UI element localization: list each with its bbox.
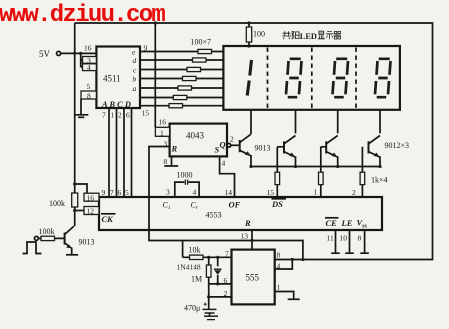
svg-text:16: 16 bbox=[159, 118, 167, 127]
capacitor C1 1000p between 4553 pins 3,4 bbox=[175, 171, 199, 198]
wire: left +5V vertical trunk bbox=[74, 23, 76, 226]
resistor R7 1k (Q4 base to 4553 pin2) bbox=[360, 147, 387, 197]
digit 4 (displays 8) bbox=[375, 59, 391, 97]
pin 10 label and ground stub of 4553 bbox=[340, 230, 354, 253]
svg-text:2: 2 bbox=[118, 111, 122, 120]
wire: segment line a bbox=[140, 87, 223, 89]
svg-text:DS: DS bbox=[271, 199, 283, 209]
svg-text:LED: LED bbox=[300, 32, 317, 41]
resistor R8 100 (display common) bbox=[246, 21, 265, 47]
svg-text:1M: 1M bbox=[191, 275, 202, 284]
IC U2 4043 RS latch bbox=[170, 124, 231, 157]
svg-text:12: 12 bbox=[87, 207, 95, 216]
resistor R g (100) bbox=[169, 104, 183, 108]
wire: 4043 pin3 down and across to 555 (reset net) bbox=[149, 147, 303, 260]
svg-text:Q: Q bbox=[220, 140, 226, 150]
wire: segment line e bbox=[140, 51, 223, 53]
digit 2 (displays 8) bbox=[286, 59, 302, 97]
svg-text:8: 8 bbox=[164, 157, 168, 166]
wire: 555 pin4 tie to pin8 rail bbox=[275, 260, 293, 270]
svg-text:3: 3 bbox=[166, 188, 170, 197]
svg-text:A B C D: A B C D bbox=[101, 99, 131, 109]
svg-text:8: 8 bbox=[358, 234, 362, 243]
IC U3 4553 three-digit BCD counter bbox=[99, 197, 382, 230]
svg-text:7: 7 bbox=[110, 188, 114, 197]
pin labels 7 1 2 6 of 4511 bbox=[102, 111, 130, 120]
resistor R2 100k pull-up bbox=[49, 193, 78, 208]
svg-text:4: 4 bbox=[193, 188, 197, 197]
pin 1 stub box of 4043 bbox=[155, 127, 169, 137]
svg-text:4: 4 bbox=[87, 63, 91, 72]
wire: emitter bus bbox=[251, 166, 380, 168]
resistor R f (100) bbox=[173, 95, 187, 99]
resistor R9 1M timing bbox=[191, 257, 211, 284]
svg-text:16: 16 bbox=[84, 44, 92, 53]
label: common anode LED display (Chinese) bbox=[282, 31, 341, 39]
svg-text:1k×4: 1k×4 bbox=[371, 176, 388, 185]
ground: C2 negative bbox=[204, 313, 218, 320]
wire: Q2 base lead bbox=[277, 146, 284, 148]
wire: BCD bus Q0 (4511 pin7 to 4553 pin9) bbox=[108, 108, 110, 197]
svg-text:100k: 100k bbox=[49, 199, 65, 208]
svg-text:555: 555 bbox=[246, 273, 260, 283]
pin labels 9 7 6 5 of 4553 bbox=[102, 188, 130, 197]
transistor Q4 9012 digit driver bbox=[369, 136, 410, 167]
svg-text:CK: CK bbox=[102, 214, 115, 224]
svg-text:d: d bbox=[133, 56, 137, 65]
svg-text:9012×3: 9012×3 bbox=[385, 141, 410, 150]
svg-text:1000: 1000 bbox=[177, 171, 193, 180]
capacitor C2 470uF electrolytic bbox=[184, 297, 217, 313]
junction dots on emitter bus bbox=[249, 165, 252, 168]
wire: Q3 base lead bbox=[321, 146, 326, 148]
wire: node down to 555 pin2 bbox=[209, 284, 232, 297]
svg-text:4043: 4043 bbox=[186, 131, 205, 141]
resistor R a (100) bbox=[178, 86, 192, 90]
wire: BCD bus Q2 (4511 pin2 to 4553 pin6) bbox=[123, 108, 125, 197]
svg-text:b: b bbox=[133, 75, 137, 84]
wire: tie to 4511 pins 3,4 bbox=[81, 53, 83, 67]
svg-text:R: R bbox=[171, 144, 178, 154]
svg-text:CE: CE bbox=[326, 218, 338, 228]
IC U4 555 timer bbox=[232, 250, 275, 305]
svg-text:10: 10 bbox=[340, 234, 348, 243]
pin 8 label and ground stub of 4553 bbox=[358, 230, 369, 253]
digit 3 (displays 8) bbox=[333, 59, 349, 97]
wire: segment line g bbox=[140, 105, 223, 107]
svg-text:14: 14 bbox=[225, 188, 233, 197]
svg-text:4: 4 bbox=[222, 159, 226, 168]
IC U1 4511 BCD-to-7seg decoder bbox=[96, 47, 140, 110]
transistor Q1 9013 digit driver bbox=[240, 134, 271, 166]
svg-text:R: R bbox=[244, 218, 251, 228]
svg-text:5V: 5V bbox=[39, 49, 51, 59]
wire: 4043 pin4 to 4553 pin14 bbox=[220, 156, 235, 197]
svg-text:10k: 10k bbox=[189, 246, 201, 255]
wire: digit1 common anode vertical bbox=[250, 110, 252, 134]
wire: BCD bus Q3 (4511 pin6 to 4553 pin5) bbox=[131, 108, 133, 197]
resistor R6 1k (Q3 base to 4553 pin1) bbox=[319, 147, 324, 197]
svg-text:1: 1 bbox=[111, 111, 115, 120]
svg-text:13: 13 bbox=[241, 232, 249, 241]
wire: Q2 base vertical upper bbox=[276, 146, 278, 148]
svg-text:100: 100 bbox=[253, 30, 265, 39]
ground: 4511 pin 8 bbox=[74, 99, 88, 117]
pin 11 label and ground stub of 4553 bbox=[327, 230, 340, 253]
ground: 4043 pin 8 bbox=[164, 156, 178, 166]
resistor R d (100) bbox=[193, 58, 207, 62]
svg-text:8: 8 bbox=[87, 91, 91, 100]
svg-text:a: a bbox=[133, 84, 137, 93]
pin 12 stub box of 4553 bbox=[84, 207, 99, 216]
svg-text:4553: 4553 bbox=[206, 211, 222, 220]
svg-text:15: 15 bbox=[267, 188, 275, 197]
svg-text:15: 15 bbox=[142, 109, 150, 118]
wire: segment line d bbox=[140, 59, 223, 61]
svg-text:2: 2 bbox=[230, 135, 234, 144]
svg-text:9: 9 bbox=[102, 188, 106, 197]
svg-text:OF: OF bbox=[229, 200, 241, 210]
resistor R5 1k (Q2 base to 4553 pin15) bbox=[275, 147, 280, 197]
svg-text:100×7: 100×7 bbox=[191, 38, 212, 47]
wire: Q5 collector to 4553 pin12 bbox=[75, 210, 84, 212]
svg-text:1: 1 bbox=[160, 128, 164, 137]
resistor R3 100k clock input series bbox=[39, 227, 55, 241]
svg-text:5: 5 bbox=[125, 188, 129, 197]
resistor R b (100) bbox=[183, 76, 197, 80]
transistor Q5 9013 clock input bbox=[65, 226, 95, 254]
resistor R e (100) bbox=[198, 49, 212, 53]
svg-text:LE: LE bbox=[341, 218, 353, 228]
wire: 555 pin1 to ground bbox=[275, 292, 294, 300]
ground: 555 pin1 bbox=[288, 298, 300, 300]
svg-text:2: 2 bbox=[352, 188, 356, 197]
wire: input terminal to R3 to Q5 base bbox=[38, 237, 64, 239]
wire: 4553 pin13 R to 555 pin3 bbox=[251, 230, 253, 250]
resistor R4 10k timing bbox=[183, 241, 232, 260]
junction dots: RC node on pin7 line bbox=[207, 256, 210, 259]
svg-text:4511: 4511 bbox=[103, 74, 121, 84]
input pulse waveform symbol bbox=[23, 242, 42, 254]
svg-text:5: 5 bbox=[87, 82, 91, 91]
pin 3 stub box of 4511 bbox=[83, 56, 97, 65]
wire: digit3 common vertical bbox=[337, 110, 339, 134]
svg-text:6: 6 bbox=[118, 188, 122, 197]
node: 5V input terminal bbox=[39, 49, 61, 59]
wire: Q1 base from 4043 Q output bbox=[231, 144, 240, 146]
pin 16 stub box of 4553 bbox=[84, 193, 99, 202]
svg-text:470μ: 470μ bbox=[184, 304, 200, 313]
svg-text:www.dziuu.com: www.dziuu.com bbox=[0, 2, 165, 29]
wire: segment line c bbox=[140, 69, 223, 71]
wire: segment line b bbox=[140, 78, 223, 80]
svg-text:9013: 9013 bbox=[255, 144, 271, 153]
wire: lamp-test vertical from rail to 4043 pin1 bbox=[154, 23, 156, 127]
pin 4 stub box of 4511 bbox=[83, 63, 97, 72]
svg-text:9013: 9013 bbox=[79, 238, 95, 247]
svg-text:1: 1 bbox=[277, 283, 281, 292]
svg-text:8: 8 bbox=[277, 251, 281, 260]
svg-text:6: 6 bbox=[126, 111, 130, 120]
svg-text:100k: 100k bbox=[39, 227, 55, 236]
wire: digit2 common vertical bbox=[295, 110, 297, 134]
svg-text:11: 11 bbox=[327, 234, 334, 243]
wire: +5V top rail bbox=[75, 23, 433, 260]
node: clock input terminal bbox=[34, 236, 38, 240]
svg-text:16: 16 bbox=[87, 193, 95, 202]
svg-text:7: 7 bbox=[102, 111, 106, 120]
wire: digit4 common vertical bbox=[379, 110, 381, 134]
ground: Q5 emitter bbox=[66, 254, 78, 256]
LED display module bbox=[223, 46, 400, 110]
transistor Q2 9012 digit driver bbox=[284, 136, 296, 167]
wire: 5V to 4511 pin16 bbox=[61, 52, 97, 54]
digit 1 (displays 1) bbox=[247, 60, 251, 96]
resistor R c (100) bbox=[187, 67, 201, 71]
wire: pull-up node to 4553 pin16 bbox=[75, 184, 87, 193]
svg-text:1: 1 bbox=[314, 188, 318, 197]
wire: segment line f bbox=[140, 97, 223, 99]
junction dots on 5V wire bbox=[73, 52, 76, 55]
pin 8 stub box of 4511 bbox=[81, 91, 96, 100]
wire: BCD bus Q1 (4511 pin1 to 4553 pin7) bbox=[116, 108, 118, 197]
transistor Q3 9012 digit driver bbox=[326, 136, 338, 167]
diode D1 1N4148 bbox=[177, 257, 222, 284]
svg-text:1N4148: 1N4148 bbox=[177, 263, 201, 272]
wire: RC node to 555 pin6 bbox=[209, 283, 232, 285]
